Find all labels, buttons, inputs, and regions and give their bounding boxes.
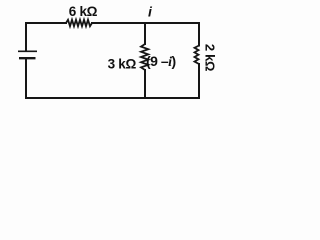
resistor R2 3k zigzag <box>141 44 148 70</box>
wire middle branch bottom <box>144 70 146 98</box>
svg-text:6 kΩ: 6 kΩ <box>69 4 98 19</box>
resistor R3 2k zigzag <box>195 46 200 65</box>
svg-text:3 kΩ: 3 kΩ <box>108 56 137 71</box>
wire left-bottom segment <box>26 59 145 98</box>
wire bottom-right segment <box>145 64 199 98</box>
wire top-left segment <box>26 23 66 51</box>
wire middle branch top <box>144 23 146 44</box>
svg-text:2 kΩ: 2 kΩ <box>203 44 218 71</box>
svg-text:(9 –i): (9 –i) <box>146 53 176 70</box>
battery E bottom plate <box>19 57 36 59</box>
wire top-right segment <box>92 23 199 46</box>
svg-text:i: i <box>148 4 153 20</box>
battery E top plate <box>18 50 37 52</box>
resistor R1 6k zigzag <box>66 20 92 26</box>
